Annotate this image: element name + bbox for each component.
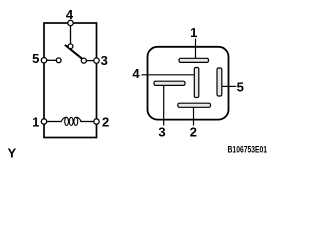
wire terminal 1 to coil — [47, 121, 62, 123]
leader line pin 2 — [193, 107, 195, 125]
leader line pin 3 — [163, 85, 165, 125]
relay coil — [61, 117, 81, 125]
svg-text:Y: Y — [7, 146, 16, 161]
svg-text:3: 3 — [101, 53, 108, 68]
wire from terminal 4 to switch pivot — [70, 26, 72, 44]
switch arm — [65, 45, 82, 59]
wire terminal 5 to contact — [47, 59, 57, 61]
relay connector body (pin side view) — [148, 47, 229, 120]
leader line pin 1 — [195, 39, 197, 59]
svg-text:5: 5 — [237, 79, 244, 94]
svg-text:2: 2 — [190, 125, 197, 140]
switch pivot contact — [68, 44, 73, 49]
svg-text:2: 2 — [102, 115, 109, 130]
pin 5 blade (right vertical) — [217, 68, 222, 96]
pin 4 blade (center vertical) — [194, 68, 199, 98]
leader line pin 5 — [222, 85, 237, 87]
terminal 4 — [68, 20, 73, 25]
svg-text:1: 1 — [190, 25, 197, 40]
relay schematic box — [44, 23, 97, 138]
terminal 1 — [41, 119, 46, 124]
wire contact to terminal 3 — [86, 60, 94, 62]
terminal 2 — [94, 119, 99, 124]
svg-text:4: 4 — [132, 66, 140, 81]
terminal 3 — [94, 58, 99, 63]
pin 1 blade — [179, 58, 209, 62]
switch contact to 5 — [56, 58, 61, 63]
wire coil to terminal 2 — [80, 121, 94, 123]
svg-text:B106753E01: B106753E01 — [228, 145, 268, 155]
svg-text:3: 3 — [158, 125, 165, 140]
svg-text:5: 5 — [32, 51, 39, 66]
svg-text:1: 1 — [32, 115, 39, 130]
pin 2 blade (bottom horizontal) — [178, 103, 211, 107]
leader line pin 4 — [142, 74, 195, 76]
pin 3 blade (left horizontal) — [154, 81, 185, 85]
switch contact to 3 — [81, 58, 86, 63]
terminal 5 — [41, 58, 46, 63]
